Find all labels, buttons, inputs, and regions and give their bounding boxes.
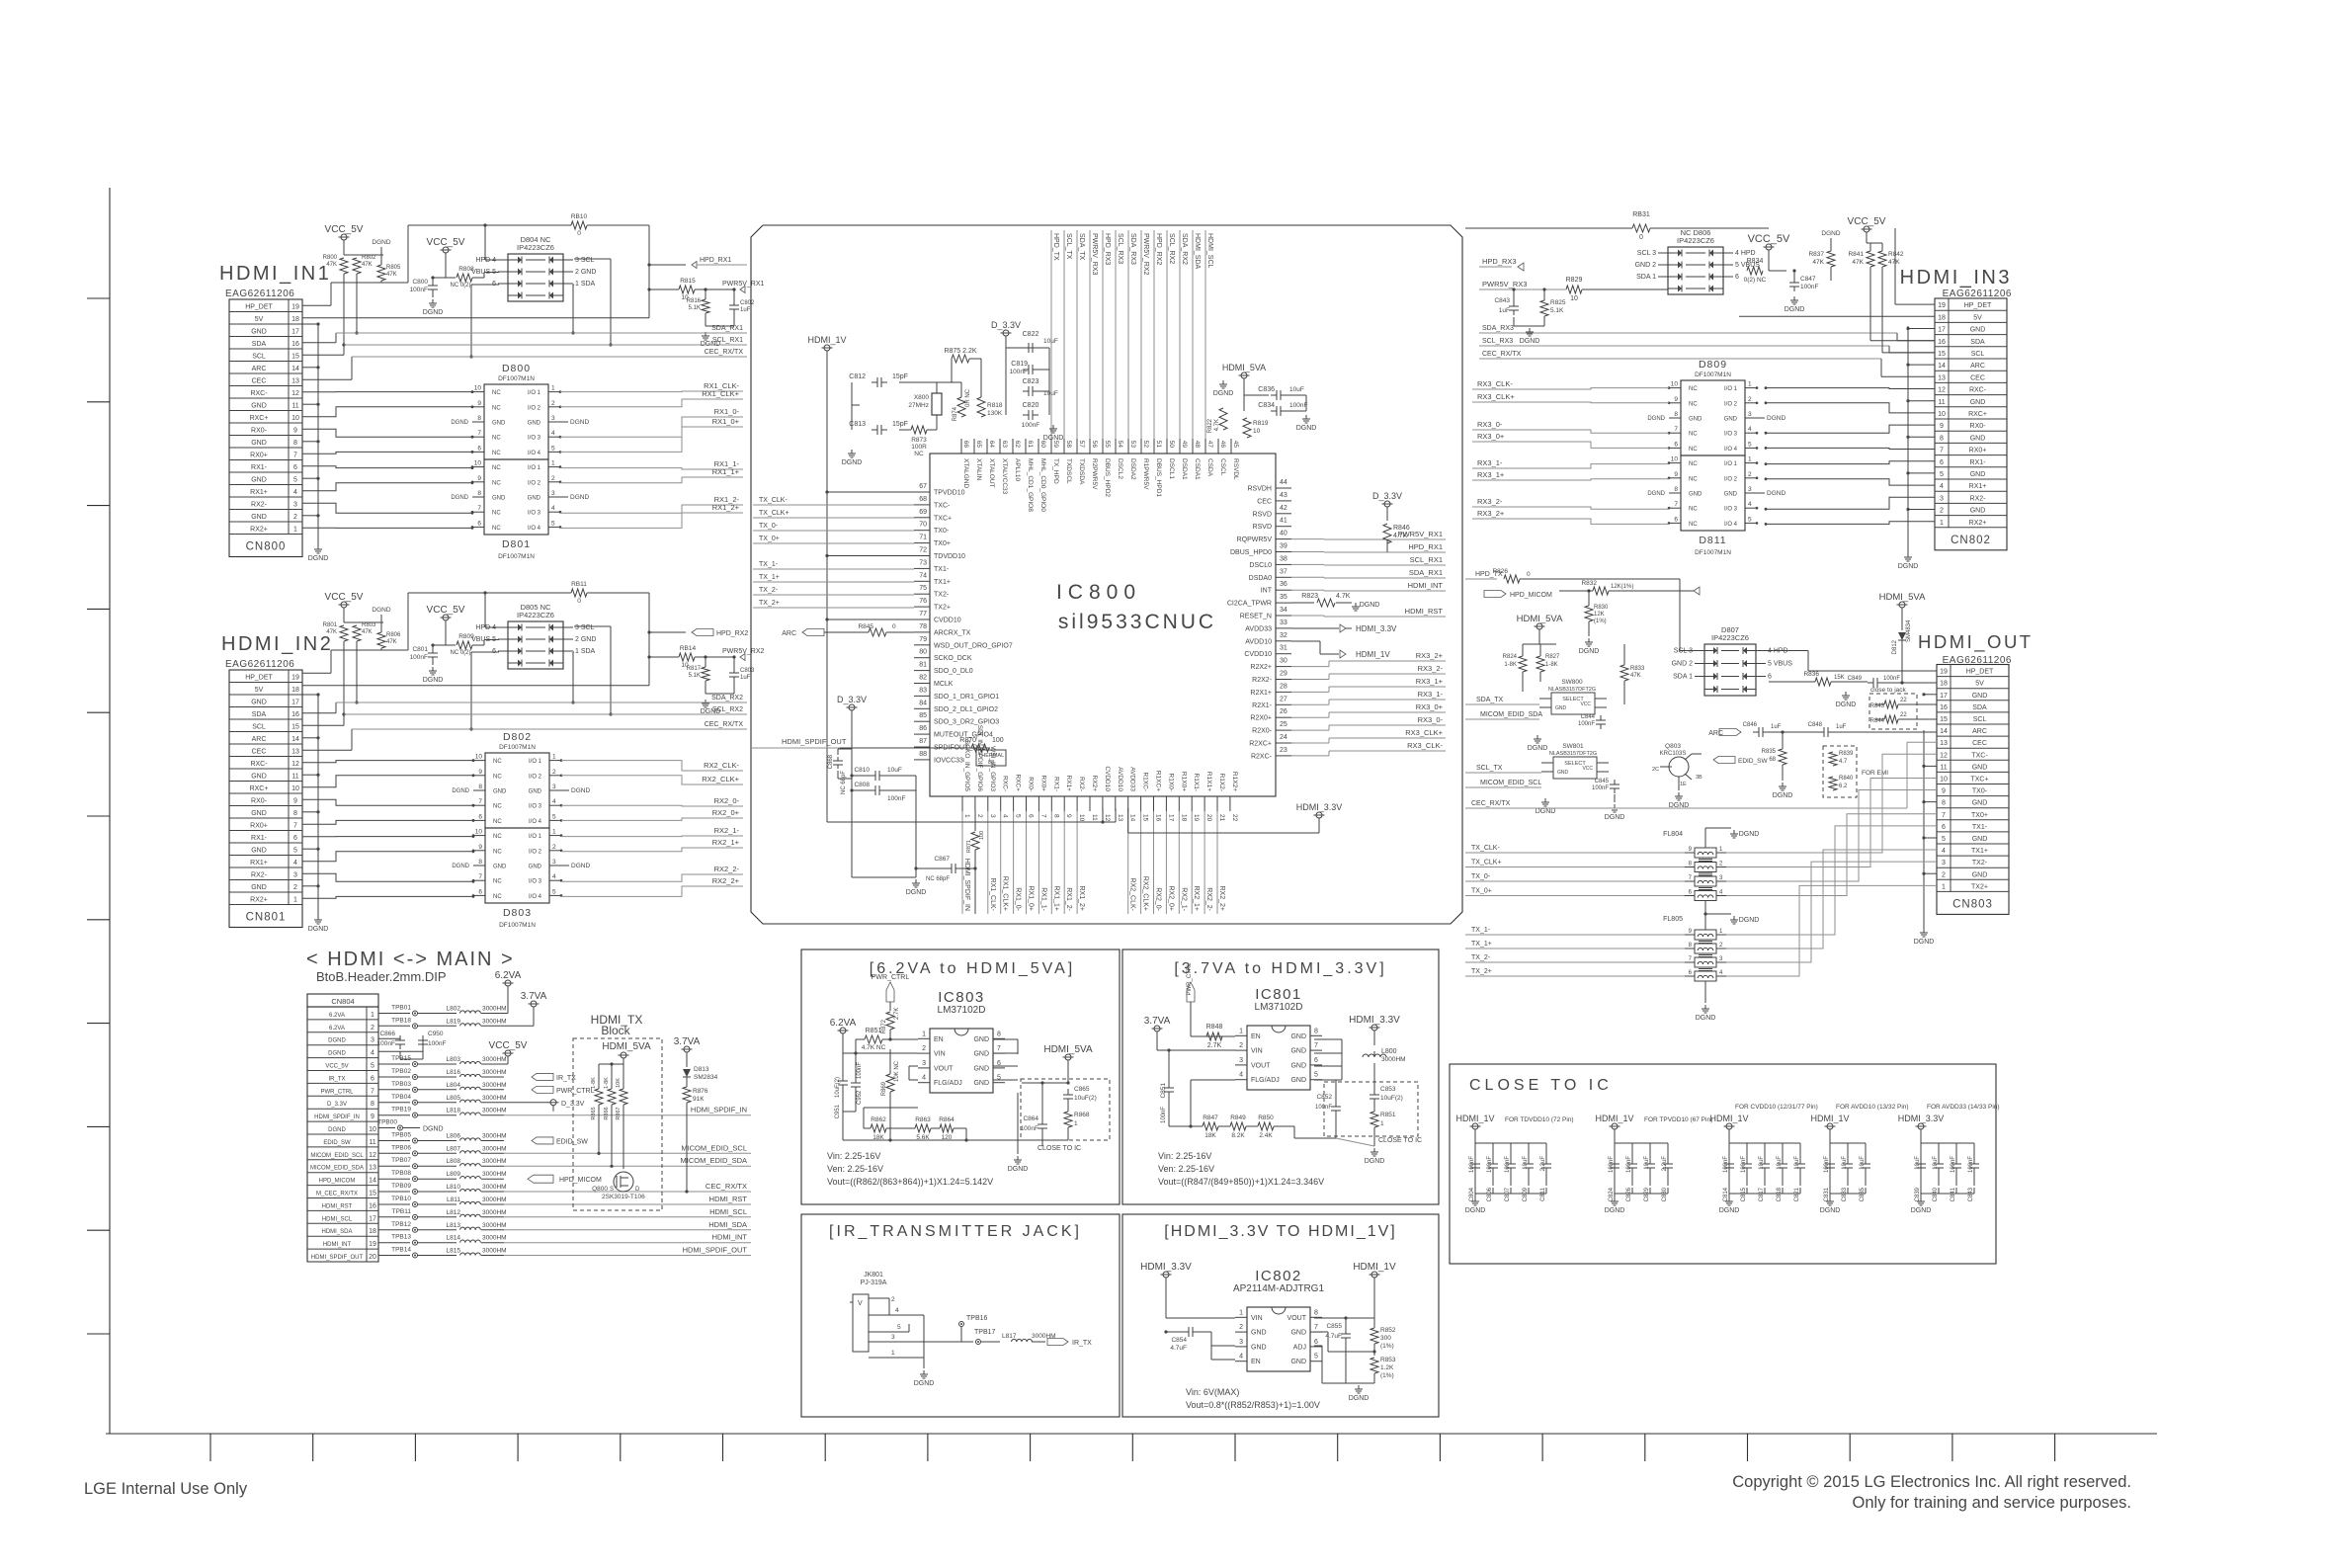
connector CN803 bbox=[1937, 665, 2009, 915]
wires SDA SCL CEC to block bbox=[302, 325, 747, 379]
svg-text:DGND: DGND bbox=[906, 889, 927, 896]
svg-text:17: 17 bbox=[1167, 814, 1174, 822]
svg-text:15pF: 15pF bbox=[892, 421, 908, 428]
svg-text:HDMI_1V: HDMI_1V bbox=[1709, 1114, 1748, 1123]
svg-text:C835: C835 bbox=[1860, 1187, 1866, 1201]
svg-text:7: 7 bbox=[997, 1045, 1001, 1052]
svg-text:17: 17 bbox=[291, 329, 299, 336]
svg-text:14: 14 bbox=[369, 1178, 376, 1185]
svg-text:DSCL2: DSCL2 bbox=[1117, 458, 1123, 479]
svg-text:1uF: 1uF bbox=[740, 307, 751, 313]
svg-text:3000HM: 3000HM bbox=[1032, 1333, 1056, 1340]
svg-text:0: 0 bbox=[1639, 234, 1643, 241]
resistor R833 bbox=[1620, 644, 1645, 704]
diode D813 resistor R876 bbox=[674, 1036, 718, 1194]
svg-text:NC: NC bbox=[1689, 461, 1698, 467]
svg-text:3: 3 bbox=[1942, 860, 1946, 867]
svg-text:18: 18 bbox=[291, 316, 299, 323]
svg-text:GND: GND bbox=[251, 329, 267, 336]
svg-text:TPB01: TPB01 bbox=[391, 1005, 411, 1012]
long wires CN804 to main block bbox=[504, 1106, 751, 1256]
svg-text:C807: C807 bbox=[1505, 1187, 1511, 1201]
svg-text:HPD_MICOM: HPD_MICOM bbox=[559, 1177, 602, 1184]
title IR bbox=[829, 1223, 1082, 1240]
svg-text:100nF: 100nF bbox=[1289, 402, 1307, 409]
svg-text:VCC_5V: VCC_5V bbox=[427, 605, 465, 616]
svg-text:14: 14 bbox=[1938, 363, 1946, 370]
svg-text:1: 1 bbox=[1940, 520, 1944, 527]
svg-text:5: 5 bbox=[897, 1324, 901, 1331]
svg-text:RX3_2-: RX3_2- bbox=[1477, 497, 1503, 506]
svg-text:NC: NC bbox=[492, 390, 501, 396]
svg-text:9: 9 bbox=[1065, 814, 1072, 818]
svg-text:GND: GND bbox=[251, 774, 267, 781]
resistor R848 3.7VA input bbox=[1144, 962, 1235, 1050]
svg-text:SCL_TX: SCL_TX bbox=[1065, 233, 1072, 260]
svg-text:C844: C844 bbox=[1581, 714, 1596, 720]
svg-text:8: 8 bbox=[1314, 1309, 1318, 1316]
svg-text:10: 10 bbox=[475, 829, 483, 836]
svg-text:3: 3 bbox=[989, 814, 996, 818]
svg-text:EN: EN bbox=[934, 1036, 944, 1043]
svg-text:I/O 2: I/O 2 bbox=[1724, 401, 1738, 407]
wires SDA SCL CEC RX2 bbox=[302, 695, 747, 750]
svg-text:NC: NC bbox=[1689, 507, 1698, 513]
svg-text:RX3_0+: RX3_0+ bbox=[1416, 702, 1444, 711]
IC803 formulas bbox=[827, 1151, 993, 1187]
svg-text:R872: R872 bbox=[881, 1019, 887, 1033]
svg-text:HDMI_IN3: HDMI_IN3 bbox=[1900, 267, 2012, 289]
svg-text:12: 12 bbox=[1938, 387, 1946, 394]
svg-text:18: 18 bbox=[291, 687, 299, 694]
svg-text:R818: R818 bbox=[987, 402, 1003, 409]
resistor RB31 bbox=[1465, 211, 1769, 241]
svg-text:LM37102D: LM37102D bbox=[1255, 1002, 1303, 1013]
svg-text:C952: C952 bbox=[857, 1090, 863, 1105]
svg-text:55: 55 bbox=[1104, 441, 1111, 449]
svg-text:HDMI_SPDIF_OUT: HDMI_SPDIF_OUT bbox=[683, 1246, 748, 1255]
svg-text:SCL_RX3: SCL_RX3 bbox=[1117, 233, 1123, 264]
svg-text:EN: EN bbox=[1251, 1359, 1261, 1365]
svg-text:L802: L802 bbox=[447, 1006, 461, 1013]
svg-text:RX2_2-: RX2_2- bbox=[1205, 887, 1212, 911]
svg-text:R870: R870 bbox=[959, 737, 976, 744]
svg-text:CLOSE TO IC: CLOSE TO IC bbox=[1469, 1077, 1613, 1094]
svg-text:TX2+: TX2+ bbox=[934, 605, 951, 612]
svg-text:DGND: DGND bbox=[1528, 745, 1548, 752]
svg-text:RX0-: RX0- bbox=[1970, 423, 1987, 430]
svg-text:18: 18 bbox=[369, 1228, 376, 1235]
svg-text:1: 1 bbox=[371, 1012, 374, 1019]
filter FL804 bbox=[1663, 828, 1759, 914]
svg-text:9: 9 bbox=[1674, 396, 1678, 403]
svg-text:16: 16 bbox=[1940, 704, 1948, 711]
svg-text:3: 3 bbox=[1748, 486, 1752, 493]
resistor R871 capacitor C867 bbox=[916, 811, 985, 914]
svg-text:100nF: 100nF bbox=[1487, 1156, 1493, 1173]
svg-text:TPB05: TPB05 bbox=[391, 1132, 411, 1139]
svg-text:RX3_0-: RX3_0- bbox=[1418, 715, 1444, 724]
svg-text:AVDD10: AVDD10 bbox=[1245, 638, 1272, 645]
svg-text:2: 2 bbox=[1942, 871, 1946, 878]
svg-text:C815: C815 bbox=[1741, 1187, 1747, 1201]
svg-text:RXC+: RXC+ bbox=[250, 415, 269, 422]
svg-text:HPD_TX: HPD_TX bbox=[1052, 233, 1059, 261]
svg-text:2: 2 bbox=[1748, 471, 1752, 478]
svg-text:GND: GND bbox=[251, 700, 267, 706]
diode array D805 bbox=[471, 603, 596, 669]
svg-text:DF1007M1N: DF1007M1N bbox=[498, 375, 535, 382]
svg-text:CEC: CEC bbox=[1972, 740, 1987, 747]
svg-text:CN801: CN801 bbox=[246, 912, 287, 924]
svg-text:3000HM: 3000HM bbox=[482, 1222, 507, 1229]
svg-text:HDMI_RST: HDMI_RST bbox=[322, 1203, 353, 1209]
svg-text:63: 63 bbox=[1001, 441, 1008, 449]
svg-text:SDO_0_DL0: SDO_0_DL0 bbox=[934, 668, 973, 675]
svg-text:I/O 2: I/O 2 bbox=[1724, 476, 1738, 482]
svg-text:10: 10 bbox=[291, 415, 299, 422]
svg-text:12: 12 bbox=[1940, 752, 1948, 759]
svg-text:VOUT: VOUT bbox=[1251, 1062, 1271, 1069]
svg-text:3000HM: 3000HM bbox=[482, 1018, 507, 1025]
svg-text:4: 4 bbox=[1940, 483, 1944, 490]
svg-text:7: 7 bbox=[1674, 426, 1678, 433]
svg-text:RX1_0-: RX1_0- bbox=[1015, 887, 1022, 911]
svg-text:43: 43 bbox=[1280, 492, 1287, 499]
svg-text:1uF: 1uF bbox=[740, 675, 751, 681]
svg-text:C836: C836 bbox=[1258, 386, 1275, 393]
svg-text:DGND: DGND bbox=[423, 677, 444, 684]
svg-text:HDMI_5VA: HDMI_5VA bbox=[1222, 363, 1266, 372]
svg-text:91K: 91K bbox=[693, 1096, 705, 1103]
svg-text:100nF: 100nF bbox=[1578, 721, 1595, 727]
svg-text:HDMI_SCL: HDMI_SCL bbox=[322, 1216, 353, 1222]
svg-text:C814: C814 bbox=[1723, 1187, 1729, 1201]
svg-text:DGND: DGND bbox=[570, 494, 589, 501]
svg-text:6: 6 bbox=[1674, 516, 1678, 523]
svg-text:RXC-: RXC- bbox=[1002, 776, 1009, 791]
svg-text:EAG62611206: EAG62611206 bbox=[225, 659, 294, 670]
svg-text:5 VBUS: 5 VBUS bbox=[1768, 661, 1792, 668]
svg-text:DGND: DGND bbox=[423, 1126, 444, 1133]
svg-text:I/O 4: I/O 4 bbox=[529, 819, 542, 825]
svg-text:C840: C840 bbox=[1933, 1187, 1939, 1201]
svg-text:DF1007M1N: DF1007M1N bbox=[499, 922, 536, 929]
thermal pad box bbox=[976, 750, 1006, 766]
svg-text:D811: D811 bbox=[1699, 535, 1726, 546]
svg-text:67: 67 bbox=[919, 483, 927, 490]
svg-text:DSDA2: DSDA2 bbox=[1129, 458, 1136, 480]
svg-text:34: 34 bbox=[1280, 607, 1287, 614]
svg-text:TPB14: TPB14 bbox=[391, 1247, 411, 1254]
svg-text:15: 15 bbox=[369, 1191, 376, 1197]
svg-text:HDMI_1V: HDMI_1V bbox=[1595, 1114, 1633, 1123]
svg-text:[3.7VA to HDMI_3.3V]: [3.7VA to HDMI_3.3V] bbox=[1174, 960, 1386, 977]
svg-text:36: 36 bbox=[1280, 581, 1287, 588]
svg-text:R2XC-: R2XC- bbox=[1251, 753, 1273, 760]
svg-text:HP_DET: HP_DET bbox=[1966, 669, 1994, 676]
ground bus CN801 bbox=[302, 693, 328, 933]
svg-text:PWR5V_RX2: PWR5V_RX2 bbox=[722, 648, 765, 655]
svg-text:[HDMI_3.3V TO HDMI_1V]: [HDMI_3.3V TO HDMI_1V] bbox=[1164, 1223, 1396, 1240]
svg-text:HDMI_5VA: HDMI_5VA bbox=[1043, 1044, 1093, 1055]
svg-text:15pF: 15pF bbox=[892, 373, 908, 380]
svg-text:DGND: DGND bbox=[842, 459, 863, 466]
svg-text:L819: L819 bbox=[447, 1018, 461, 1025]
svg-text:RXC+: RXC+ bbox=[1968, 411, 1987, 418]
svg-text:79: 79 bbox=[919, 636, 927, 643]
svg-text:I/O 4: I/O 4 bbox=[1724, 522, 1738, 528]
svg-text:L804: L804 bbox=[447, 1082, 461, 1089]
svg-text:NC: NC bbox=[493, 894, 502, 900]
svg-text:5: 5 bbox=[552, 813, 556, 820]
svg-text:EDID_SW: EDID_SW bbox=[556, 1139, 588, 1146]
svg-text:3000HM: 3000HM bbox=[482, 1082, 507, 1089]
svg-text:NC 0(2): NC 0(2) bbox=[450, 283, 470, 289]
HDMI-MAIN title bbox=[306, 949, 515, 984]
svg-text:TX_CLK-: TX_CLK- bbox=[1471, 845, 1500, 852]
svg-text:18K: 18K bbox=[1204, 1132, 1216, 1139]
svg-text:13: 13 bbox=[1938, 374, 1946, 381]
svg-text:DGND: DGND bbox=[423, 309, 444, 316]
svg-text:I/O 3: I/O 3 bbox=[1724, 507, 1738, 513]
svg-text:12: 12 bbox=[1104, 814, 1111, 822]
svg-text:68: 68 bbox=[919, 496, 927, 503]
svg-text:13: 13 bbox=[369, 1165, 376, 1172]
svg-text:R830: R830 bbox=[1594, 605, 1609, 611]
svg-text:GND: GND bbox=[529, 865, 542, 870]
svg-text:32: 32 bbox=[1280, 632, 1287, 639]
svg-text:GND: GND bbox=[1251, 1344, 1267, 1351]
svg-text:DGND: DGND bbox=[1911, 1207, 1932, 1214]
svg-text:IP4223CZ6: IP4223CZ6 bbox=[517, 243, 554, 252]
svg-text:AVDD33: AVDD33 bbox=[1245, 625, 1272, 632]
svg-text:84: 84 bbox=[919, 700, 927, 706]
svg-text:VCC_5V: VCC_5V bbox=[325, 592, 364, 603]
svg-text:4.7: 4.7 bbox=[1839, 759, 1848, 765]
svg-text:3: 3 bbox=[293, 502, 297, 509]
svg-text:C852: C852 bbox=[1316, 1094, 1332, 1101]
svg-text:HDMI_IN1: HDMI_IN1 bbox=[219, 263, 331, 285]
svg-text:RX3_1+: RX3_1+ bbox=[1416, 677, 1444, 686]
svg-text:I/O 1: I/O 1 bbox=[1724, 386, 1738, 392]
svg-text:6: 6 bbox=[293, 464, 297, 471]
jack JK801 IR transmitter bbox=[850, 1272, 1092, 1387]
svg-text:5.1K: 5.1K bbox=[689, 673, 701, 679]
svg-text:13: 13 bbox=[291, 749, 299, 756]
svg-text:FOR AVDD10 (13/32 Pin): FOR AVDD10 (13/32 Pin) bbox=[1836, 1104, 1909, 1111]
svg-text:1-8K: 1-8K bbox=[591, 1077, 597, 1089]
svg-text:100: 100 bbox=[992, 737, 1004, 744]
svg-text:RX2_0-: RX2_0- bbox=[714, 796, 740, 805]
svg-text:4: 4 bbox=[371, 1050, 374, 1057]
svg-text:RX1_0+: RX1_0+ bbox=[712, 417, 740, 426]
svg-text:40: 40 bbox=[1280, 531, 1287, 537]
svg-text:GND: GND bbox=[1972, 836, 1988, 843]
svg-text:SCKO_DCK: SCKO_DCK bbox=[934, 655, 972, 662]
svg-text:C812: C812 bbox=[849, 373, 866, 380]
svg-text:RXC+: RXC+ bbox=[250, 785, 269, 792]
svg-text:6: 6 bbox=[1674, 441, 1678, 448]
svg-text:TXDSDA: TXDSDA bbox=[1078, 458, 1085, 485]
svg-text:130K: 130K bbox=[987, 410, 1003, 417]
svg-text:APLL10: APLL10 bbox=[1014, 458, 1021, 482]
svg-text:GND: GND bbox=[1970, 399, 1986, 406]
svg-text:HDMI_5VA: HDMI_5VA bbox=[1879, 592, 1926, 603]
svg-text:12K: 12K bbox=[1594, 612, 1605, 618]
svg-text:R1X0+: R1X0+ bbox=[1180, 772, 1187, 791]
svg-text:HPD_MICOM: HPD_MICOM bbox=[319, 1179, 356, 1185]
svg-text:8: 8 bbox=[1052, 814, 1059, 818]
svg-text:CEC: CEC bbox=[252, 749, 267, 756]
svg-text:IC803: IC803 bbox=[938, 989, 985, 1006]
svg-text:RX0+: RX0+ bbox=[1039, 776, 1046, 792]
svg-text:47K: 47K bbox=[1888, 259, 1900, 266]
svg-text:R802: R802 bbox=[362, 255, 376, 261]
svg-text:26: 26 bbox=[1280, 708, 1287, 715]
svg-text:L811: L811 bbox=[447, 1197, 460, 1203]
svg-text:23: 23 bbox=[1280, 747, 1287, 754]
svg-text:LM37102D: LM37102D bbox=[938, 1005, 986, 1016]
box close to IC bbox=[1450, 1064, 1996, 1264]
svg-text:RX1_CLK-: RX1_CLK- bbox=[989, 878, 996, 912]
svg-text:10uF: 10uF bbox=[1644, 1156, 1650, 1170]
svg-text:VCC_5V: VCC_5V bbox=[325, 224, 364, 235]
svg-text:1: 1 bbox=[1380, 1120, 1384, 1127]
svg-text:TDVDD10: TDVDD10 bbox=[934, 553, 965, 560]
svg-text:GND: GND bbox=[1724, 492, 1738, 498]
svg-text:GND: GND bbox=[1689, 492, 1702, 498]
svg-text:RX2+: RX2+ bbox=[250, 897, 268, 904]
svg-text:L807: L807 bbox=[447, 1145, 461, 1152]
footer copyright bbox=[1732, 1473, 2131, 1491]
svg-text:GND: GND bbox=[1290, 1062, 1306, 1069]
svg-text:TX1-: TX1- bbox=[934, 566, 950, 573]
svg-text:NC: NC bbox=[492, 465, 501, 471]
svg-text:HPD_RX1: HPD_RX1 bbox=[700, 257, 731, 264]
svg-text:Q803: Q803 bbox=[1665, 743, 1681, 750]
svg-text:47: 47 bbox=[1206, 441, 1213, 449]
svg-text:10uF(2): 10uF(2) bbox=[835, 1077, 841, 1098]
wires SDA SCL CEC RX3 bbox=[1479, 325, 1935, 376]
cap group G4 bbox=[1810, 1104, 1908, 1214]
svg-text:RX2_1-: RX2_1- bbox=[714, 826, 740, 835]
svg-text:R822: R822 bbox=[1207, 418, 1213, 433]
svg-text:81: 81 bbox=[919, 662, 927, 669]
svg-text:L816: L816 bbox=[447, 1069, 461, 1076]
svg-text:SDO_1_DR1_GPIO1: SDO_1_DR1_GPIO1 bbox=[934, 694, 999, 701]
svg-text:8: 8 bbox=[1674, 486, 1678, 493]
svg-text:R865: R865 bbox=[591, 1107, 597, 1119]
svg-text:C853: C853 bbox=[1380, 1086, 1396, 1093]
svg-text:R1X2+: R1X2+ bbox=[1231, 772, 1238, 791]
svg-text:1: 1 bbox=[551, 385, 555, 392]
switch SW801 bbox=[1465, 743, 1609, 815]
svg-text:R800: R800 bbox=[323, 255, 338, 261]
svg-text:CLOSE TO IC: CLOSE TO IC bbox=[1038, 1145, 1081, 1152]
svg-text:NC: NC bbox=[492, 526, 501, 532]
svg-text:0: 0 bbox=[1527, 571, 1531, 578]
svg-text:Vout=((R847/(849+850))+1)X1.24: Vout=((R847/(849+850))+1)X1.24=3.346V bbox=[1158, 1177, 1324, 1187]
svg-text:RX0-: RX0- bbox=[251, 428, 268, 435]
svg-text:R868: R868 bbox=[1074, 1112, 1090, 1118]
svg-text:L808: L808 bbox=[447, 1158, 461, 1165]
svg-text:ARC: ARC bbox=[1708, 730, 1723, 737]
svg-text:24: 24 bbox=[1280, 734, 1287, 741]
test point TPB00 bbox=[377, 1119, 444, 1133]
svg-text:HPD_RX3: HPD_RX3 bbox=[1104, 233, 1111, 265]
svg-text:R806: R806 bbox=[386, 632, 401, 638]
svg-text:TPB16: TPB16 bbox=[966, 1315, 988, 1322]
svg-text:MHL_CD0_GPIO0: MHL_CD0_GPIO0 bbox=[1039, 458, 1046, 512]
HDMI_1V vertical rail bbox=[807, 335, 914, 822]
svg-text:0: 0 bbox=[577, 230, 581, 237]
svg-text:47K: 47K bbox=[362, 262, 373, 268]
svg-text:R1X1+: R1X1+ bbox=[1205, 772, 1212, 791]
wire HPD to CN803 bbox=[1766, 651, 1937, 672]
svg-text:DGND: DGND bbox=[1696, 1015, 1716, 1022]
svg-text:1 SDA: 1 SDA bbox=[575, 281, 596, 288]
ground bus CN803 bbox=[1914, 693, 1937, 946]
svg-text:DGND: DGND bbox=[308, 926, 329, 933]
svg-text:DGND: DGND bbox=[1739, 917, 1760, 924]
svg-text:TX_0+: TX_0+ bbox=[759, 536, 780, 542]
svg-text:68: 68 bbox=[1769, 757, 1776, 763]
svg-text:0: 0 bbox=[577, 598, 581, 605]
wires TX to filters bbox=[1465, 845, 1685, 976]
svg-text:GND: GND bbox=[1290, 1330, 1306, 1337]
svg-text:37: 37 bbox=[1280, 568, 1287, 575]
svg-text:PWR_CTRL: PWR_CTRL bbox=[320, 1089, 354, 1095]
svg-text:R1XC-: R1XC- bbox=[1142, 772, 1149, 791]
svg-text:5: 5 bbox=[1314, 1072, 1318, 1079]
svg-text:CEC: CEC bbox=[252, 378, 267, 385]
svg-text:DGND: DGND bbox=[1836, 701, 1857, 708]
svg-text:RX1_0+: RX1_0+ bbox=[1028, 886, 1035, 912]
svg-text:HDMI_SCL: HDMI_SCL bbox=[1206, 233, 1213, 269]
svg-text:71: 71 bbox=[919, 535, 927, 541]
svg-text:GND: GND bbox=[1290, 1359, 1306, 1365]
svg-text:CVDD10: CVDD10 bbox=[1104, 766, 1111, 791]
svg-text:FOR AVDD33 (14/33 Pin): FOR AVDD33 (14/33 Pin) bbox=[1927, 1104, 2000, 1111]
svg-text:CEC_RX/TX: CEC_RX/TX bbox=[1482, 351, 1522, 358]
svg-text:I/O 3: I/O 3 bbox=[528, 511, 541, 517]
svg-text:42: 42 bbox=[1280, 505, 1287, 512]
capacitor cluster C808 C810 bbox=[828, 695, 926, 896]
svg-text:29: 29 bbox=[1280, 671, 1287, 678]
svg-text:KRC103S: KRC103S bbox=[1660, 751, 1687, 757]
svg-text:TX0-: TX0- bbox=[934, 528, 950, 535]
svg-text:HPD_MICOM: HPD_MICOM bbox=[1510, 592, 1552, 599]
resistors R843 R844 close to jack bbox=[1869, 687, 1937, 729]
svg-text:4: 4 bbox=[1942, 848, 1946, 855]
svg-text:R817: R817 bbox=[687, 666, 702, 672]
D800 D801 termination bbox=[451, 363, 589, 560]
svg-text:4: 4 bbox=[552, 873, 556, 880]
svg-text:RXC+: RXC+ bbox=[1015, 774, 1022, 791]
svg-text:TPB00: TPB00 bbox=[377, 1119, 397, 1126]
svg-text:HDMI_RST: HDMI_RST bbox=[1405, 607, 1444, 616]
power symbols 6.2VA 3.7VA VCC_5V bbox=[489, 970, 547, 1064]
svg-text:6: 6 bbox=[1314, 1339, 1318, 1346]
svg-text:100nF: 100nF bbox=[1592, 785, 1609, 791]
svg-text:35: 35 bbox=[1280, 594, 1287, 601]
feedback network R847 R849 R850 C851 bbox=[1160, 1048, 1336, 1139]
svg-text:THERMAL: THERMAL bbox=[978, 753, 1004, 759]
svg-text:C802: C802 bbox=[740, 300, 755, 306]
regulator IC803 bbox=[918, 989, 1005, 1093]
svg-text:R815: R815 bbox=[680, 278, 696, 285]
